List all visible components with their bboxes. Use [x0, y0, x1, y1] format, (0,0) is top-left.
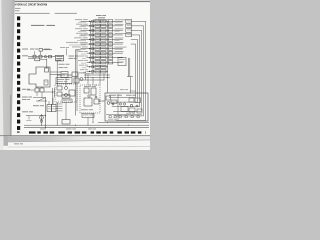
svg-text:HYDRAULIC CIRCUIT DIAGRAM: HYDRAULIC CIRCUIT DIAGRAM — [15, 3, 47, 6]
header subtext line 2 — [15, 9, 20, 12]
underlying sheet sliver far left — [0, 0, 4, 150]
left margin bottom corner — [0, 136, 8, 146]
gauge circle — [80, 78, 83, 81]
wire: ladder top header — [93, 19, 108, 21]
wire: valve E drop — [65, 103, 67, 120]
bl label 3 — [22, 110, 28, 113]
block circle 3 — [119, 103, 121, 105]
suction strainer bottom right of tank — [44, 80, 48, 85]
wire drop right of label box — [92, 113, 94, 123]
wire: tank to top — [46, 59, 48, 69]
wire: right drop pair b — [129, 58, 131, 77]
block label 2 — [126, 94, 132, 97]
bottom label 2 — [88, 128, 92, 131]
valve section C — [69, 90, 75, 96]
block circle 5 — [130, 104, 133, 107]
valve box 3 — [74, 78, 79, 83]
wire through pumps — [41, 114, 43, 125]
wire: header drop — [102, 20, 104, 21]
block circle 2 — [112, 103, 114, 105]
wire drop to assembly — [87, 75, 89, 85]
wire drop b2 — [99, 73, 101, 80]
wire: drop to block — [130, 77, 132, 94]
pump boxes below tank — [35, 88, 39, 92]
wire: bottom bus 1 — [98, 122, 149, 124]
wire pump drop a — [36, 92, 38, 96]
block label 3 — [126, 112, 131, 115]
row y49: text, box, wire — [22, 48, 28, 51]
valve box 2 — [72, 72, 78, 77]
wire bl 3 — [26, 115, 46, 117]
wire drop x52 — [52, 88, 54, 105]
wire box-right — [40, 58, 47, 60]
wire: header drop — [94, 20, 96, 21]
bottom legend dash row — [29, 131, 36, 133]
strainer box inside tank — [45, 68, 49, 72]
bl tiny label — [26, 119, 32, 122]
wire connector to ladder — [76, 49, 81, 51]
header rule — [15, 0, 150, 3]
main control valve assembly (dashed) — [80, 85, 100, 113]
wire: ladder rungs — [81, 20, 123, 22]
pump unit boxes — [47, 105, 52, 112]
block sub-box 2 — [111, 100, 117, 104]
valve section D — [62, 95, 70, 99]
block sub-box 6 — [129, 108, 135, 112]
wire drop from label box — [87, 117, 89, 125]
pump circles — [40, 116, 44, 120]
wire drop c2 — [103, 73, 105, 80]
wire: nested right bus returns — [116, 21, 146, 120]
wire: bottom bus 3 — [24, 127, 149, 129]
gauge A — [65, 87, 68, 90]
block circle 6 — [136, 105, 138, 107]
next sheet — [8, 140, 150, 150]
block sub-box 5 — [135, 98, 141, 103]
wire: right drop pair a — [128, 58, 130, 77]
wire drop a2 — [85, 71, 87, 80]
wire pump drop b — [41, 92, 43, 98]
valve section B — [57, 92, 62, 96]
wire pump left — [27, 89, 35, 91]
label above ladder — [96, 14, 102, 17]
wire: header drop — [98, 20, 100, 21]
relief valve block (dense) — [56, 55, 64, 61]
distribution wires below ladder — [84, 74, 110, 76]
label above block 2 — [130, 90, 136, 93]
label row above manifold box — [57, 74, 65, 77]
wire tank-valve 1 — [50, 71, 61, 73]
block circle 4 — [123, 103, 125, 105]
hydraulic tank outline — [29, 67, 50, 87]
mid label 1 — [59, 63, 65, 66]
ladder left labels with arrows — [75, 18, 82, 21]
block sub-box 4 — [129, 98, 134, 102]
wire inside block 2 — [106, 114, 142, 116]
ladder right: check boxes and labels — [108, 20, 113, 23]
gauge B — [65, 94, 68, 97]
spool 4 — [94, 99, 99, 104]
mid label 2 — [59, 66, 64, 69]
figure caption text — [31, 25, 44, 26]
solenoid valve block pairs — [95, 20, 100, 23]
wire bl stub — [28, 116, 30, 120]
label above relief valve — [60, 46, 65, 49]
wire: ladder vertical buses — [90, 21, 92, 62]
wire row y56 — [28, 56, 56, 58]
valve section E — [62, 99, 72, 103]
wire drop b — [40, 51, 42, 55]
header subtext line 1 — [15, 7, 21, 10]
wire: bottom bus 2 — [24, 124, 149, 126]
bottom label 3 — [40, 128, 46, 131]
legend table below pilot assembly — [56, 103, 63, 106]
block sub-box 7 — [137, 109, 142, 113]
pump label — [22, 88, 26, 91]
wire into block left — [98, 100, 105, 102]
index tab column — [17, 16, 20, 20]
pump unit label — [33, 104, 39, 107]
spool 2 — [91, 88, 96, 95]
wire into gauge A — [65, 78, 67, 87]
block bottom label — [108, 118, 113, 121]
block label 1 — [109, 94, 116, 97]
wire inside block — [117, 94, 119, 120]
header note line — [15, 12, 50, 15]
wire: relief valve drop — [56, 61, 58, 86]
label above block — [120, 88, 124, 91]
block sub-box 1 — [106, 96, 111, 100]
terminal boxes right column (top rungs) — [126, 20, 132, 24]
wire drop x54 — [54, 88, 56, 97]
bl label 2 — [22, 98, 26, 101]
wire: header drop — [105, 20, 107, 21]
row y56: chain of small symbols — [22, 54, 28, 57]
manifold box — [56, 78, 72, 84]
block sub-box 3 — [121, 107, 128, 112]
page spine shadow — [10, 95, 12, 136]
wire bl 2 — [36, 100, 47, 102]
label right of relief valve — [69, 55, 75, 58]
wire tank-valve 2 — [50, 74, 61, 76]
block circle 1 — [107, 102, 110, 105]
double-height box right side — [118, 57, 126, 65]
valve section A — [57, 86, 62, 90]
main valve block outline — [105, 93, 148, 121]
bl label 1 — [22, 96, 28, 99]
next page text — [14, 142, 19, 145]
left margin wedge (page edge skew) — [0, 0, 14, 136]
spool 1 — [84, 88, 89, 93]
wire bl 1 — [33, 97, 46, 99]
junction dots — [92, 20, 95, 23]
wire: pilot drop to bus — [56, 102, 58, 125]
wire drop a — [34, 51, 36, 55]
small label — [86, 72, 90, 75]
wire row y49 — [43, 49, 53, 51]
pilot valve assembly (dashed) — [55, 84, 77, 102]
wire pair down center — [75, 50, 77, 116]
label left of box — [28, 57, 34, 60]
wire: right connector — [127, 76, 133, 78]
connector squares left of valve column — [92, 20, 94, 22]
label box below assembly — [82, 113, 94, 117]
wire into relief valve — [66, 49, 68, 56]
wire pump right — [44, 91, 55, 93]
valve box center-left — [61, 72, 68, 78]
wire: vertical drop x45 — [45, 98, 47, 128]
wire diagonal — [38, 98, 46, 101]
port 2 — [95, 96, 97, 98]
scanned page sheet — [11, 0, 151, 136]
page bottom edge — [0, 135, 150, 137]
small box above tank — [35, 58, 40, 61]
port 1 — [88, 95, 90, 97]
bottom small box — [62, 120, 70, 125]
bottom label 1 — [66, 128, 72, 131]
spool 3 — [84, 98, 92, 106]
